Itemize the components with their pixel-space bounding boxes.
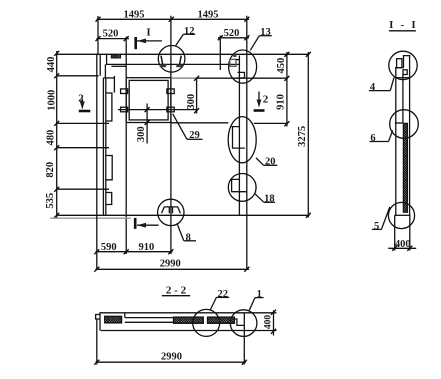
13 grey square bbox=[230, 59, 236, 66]
right dim column 450/910 bbox=[286, 52, 288, 127]
svg-text:440: 440 bbox=[46, 57, 57, 73]
svg-text:450: 450 bbox=[276, 58, 287, 74]
svg-text:820: 820 bbox=[45, 162, 56, 178]
svg-text:4: 4 bbox=[370, 82, 376, 93]
bolt mark bbox=[121, 89, 128, 94]
left top step bbox=[103, 77, 114, 79]
tick bbox=[96, 36, 101, 41]
section marker I top: arrow bbox=[137, 40, 162, 42]
dim line top 1495+1495 bbox=[97, 18, 250, 20]
panel bottom edge bbox=[57, 214, 310, 216]
tick bbox=[194, 76, 199, 81]
dim line 520 top-left bbox=[97, 38, 130, 40]
bolt mark bbox=[167, 89, 174, 94]
svg-text:535: 535 bbox=[45, 193, 56, 209]
bar left end bbox=[99, 313, 101, 331]
13 notch mark bbox=[233, 54, 236, 57]
hatch box B bbox=[208, 317, 235, 323]
wall right face bbox=[409, 56, 411, 216]
hatch strip bbox=[403, 123, 407, 212]
wall top cap bbox=[404, 56, 411, 68]
square 29 outer bbox=[126, 78, 171, 123]
8 top-hat bbox=[162, 207, 181, 213]
dim line 400 bbox=[388, 247, 416, 249]
svg-text:2 - 2: 2 - 2 bbox=[166, 284, 187, 296]
left tab 3 bbox=[106, 193, 112, 205]
tick bbox=[54, 73, 59, 78]
circle 18 bbox=[228, 174, 256, 202]
tick bbox=[407, 246, 412, 251]
13 bracket bbox=[238, 72, 245, 78]
ext lines 400 bbox=[394, 215, 396, 250]
tick bbox=[54, 213, 59, 218]
square 29 top edge extension (grey) bbox=[171, 77, 197, 79]
bottom dim 590/910 bbox=[96, 251, 173, 253]
inner ledge bbox=[395, 67, 404, 69]
loop 12 legs bbox=[161, 56, 163, 65]
extension line x126 bbox=[125, 37, 127, 255]
circle 8 bbox=[158, 199, 184, 225]
tick bbox=[271, 329, 276, 334]
circle 4 bbox=[389, 51, 417, 79]
svg-text:I: I bbox=[146, 27, 150, 39]
svg-text:6: 6 bbox=[370, 133, 375, 144]
tick bbox=[194, 108, 199, 113]
bar right end bbox=[243, 313, 245, 365]
tick bbox=[306, 213, 311, 218]
tick bbox=[145, 107, 150, 112]
tick bbox=[244, 267, 249, 272]
section marker 2 left: bar bbox=[79, 110, 91, 113]
mid line bbox=[402, 75, 404, 124]
recessed strip bottom bbox=[125, 321, 174, 323]
faint shadow line bbox=[50, 217, 131, 219]
circle 1 bbox=[230, 310, 257, 337]
corner step vertical bbox=[104, 64, 106, 78]
circle 5 bbox=[388, 202, 414, 228]
tick bbox=[284, 121, 289, 126]
svg-text:1000: 1000 bbox=[47, 90, 58, 111]
top-left corner vertical bbox=[106, 54, 108, 64]
strip left step bbox=[124, 313, 126, 318]
svg-text:910: 910 bbox=[139, 242, 155, 253]
tick bbox=[306, 52, 311, 57]
svg-text:400: 400 bbox=[264, 315, 274, 330]
svg-text:300: 300 bbox=[186, 94, 197, 110]
tick bbox=[94, 360, 99, 365]
section marker 1 bottom: arrow bbox=[137, 224, 159, 226]
bottom dim 2990 bbox=[96, 268, 250, 270]
18 bracket bbox=[231, 179, 247, 192]
panel inner top edge bbox=[106, 63, 240, 65]
svg-text:2: 2 bbox=[263, 94, 269, 106]
svg-text:520: 520 bbox=[103, 28, 119, 39]
bar bottom line bbox=[101, 330, 277, 332]
svg-text:480: 480 bbox=[46, 130, 57, 146]
wall left face bbox=[395, 68, 397, 216]
section marker I top: bar bbox=[134, 37, 137, 49]
dim line 300 right bbox=[196, 78, 198, 113]
ext line y147.7 bbox=[57, 147, 109, 149]
svg-text:I - I: I - I bbox=[389, 19, 418, 31]
tick bbox=[244, 17, 249, 22]
dim line 520 top-right bbox=[218, 37, 249, 39]
tick bbox=[124, 249, 129, 254]
ext line y75.8 bbox=[57, 75, 99, 77]
tick bbox=[54, 51, 59, 56]
square 29 inner bbox=[129, 80, 168, 120]
top-left notch bbox=[111, 55, 120, 58]
section marker 2 right: arrow bbox=[258, 92, 260, 104]
hatch box A bbox=[174, 317, 204, 323]
oval 13 bbox=[229, 50, 257, 83]
svg-text:5: 5 bbox=[374, 221, 379, 232]
loop 12 feet bbox=[160, 64, 166, 67]
section marker 1 bottom: bar bbox=[134, 218, 137, 229]
tick bbox=[242, 360, 247, 365]
left ext line bbox=[96, 319, 98, 365]
right dim column 3275 bbox=[307, 52, 309, 218]
panel right outer edge bbox=[246, 16, 248, 270]
svg-text:12: 12 bbox=[184, 26, 195, 37]
13 top step line bbox=[236, 59, 239, 61]
tick bbox=[54, 145, 59, 150]
circle 22 bbox=[193, 309, 220, 336]
tick bbox=[96, 17, 101, 22]
left end notch bbox=[96, 315, 100, 320]
left inner edge double line bbox=[102, 78, 104, 215]
svg-text:3275: 3275 bbox=[297, 126, 308, 147]
left tab 1 bbox=[106, 93, 112, 121]
tick bbox=[169, 17, 174, 22]
tick bbox=[54, 187, 59, 192]
svg-text:1: 1 bbox=[257, 289, 262, 300]
svg-text:2990: 2990 bbox=[160, 259, 181, 270]
svg-text:520: 520 bbox=[224, 28, 240, 39]
wall bottom bbox=[395, 214, 411, 216]
recessed strip top bbox=[125, 317, 174, 319]
tick bbox=[271, 310, 276, 315]
ext line y189.2 bbox=[57, 188, 109, 190]
section marker 2 right: bar bbox=[254, 109, 265, 112]
tick bbox=[94, 267, 99, 272]
small square bbox=[403, 70, 407, 75]
20 bracket bbox=[232, 127, 245, 149]
svg-text:300: 300 bbox=[136, 126, 147, 142]
oval 20 bbox=[228, 117, 256, 163]
extension line x220.3 bbox=[219, 36, 221, 71]
square 29 top edge extension bbox=[197, 77, 288, 79]
tick bbox=[244, 35, 249, 40]
svg-text:590: 590 bbox=[101, 242, 117, 253]
dim 2990 bottom bbox=[96, 361, 247, 363]
panel left inner corner line bbox=[99, 54, 101, 76]
svg-text:1495: 1495 bbox=[124, 9, 145, 20]
bolt mark bbox=[167, 107, 174, 112]
tick bbox=[145, 120, 150, 125]
extension/centerline x171 full height bbox=[170, 16, 172, 254]
circle 6 bbox=[390, 110, 419, 139]
tick bbox=[168, 249, 173, 254]
tick bbox=[284, 76, 289, 81]
ext line y123.4 bbox=[57, 122, 109, 124]
tick bbox=[218, 35, 223, 40]
panel left outer edge bbox=[96, 54, 98, 271]
extension line left x98 bbox=[97, 16, 99, 54]
svg-text:22: 22 bbox=[218, 289, 229, 300]
panel top edge bbox=[57, 53, 310, 55]
tick bbox=[94, 249, 99, 254]
wall joint line bbox=[396, 77, 410, 79]
tick bbox=[54, 121, 59, 126]
bolt mark bbox=[121, 107, 128, 112]
svg-text:20: 20 bbox=[265, 157, 276, 168]
svg-text:8: 8 bbox=[186, 232, 191, 243]
square centerline bbox=[118, 109, 198, 111]
svg-text:400: 400 bbox=[395, 239, 411, 250]
hatch box 1 bbox=[105, 316, 122, 323]
tick bbox=[392, 246, 397, 251]
tick bbox=[124, 36, 129, 41]
svg-text:2990: 2990 bbox=[161, 351, 182, 362]
left tab 2 bbox=[106, 156, 112, 180]
dim 400 right bbox=[273, 310, 275, 335]
svg-text:1495: 1495 bbox=[198, 9, 219, 20]
svg-text:910: 910 bbox=[276, 94, 287, 110]
square 29 bottom ext right of oval20 bbox=[254, 122, 288, 124]
right end step bbox=[234, 319, 244, 325]
square 29 bottom edge extension bbox=[171, 122, 229, 124]
left dim column vertical bbox=[56, 51, 58, 218]
parapet block bbox=[397, 59, 402, 68]
circle 12 bbox=[158, 46, 185, 73]
section marker 2 left: arrow bbox=[81, 99, 83, 106]
panel right inner edge bbox=[238, 56, 240, 216]
bar top line bbox=[99, 312, 276, 314]
svg-text:13: 13 bbox=[260, 27, 271, 38]
tick bbox=[284, 52, 289, 57]
dim line 300 left bbox=[146, 104, 148, 144]
hatch ledge bbox=[395, 122, 404, 124]
second inner top line bbox=[111, 65, 126, 67]
